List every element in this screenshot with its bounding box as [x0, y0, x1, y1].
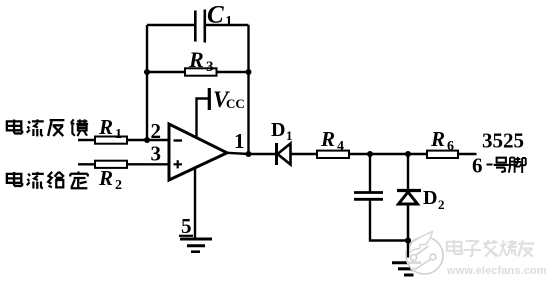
- svg-text:4: 4: [337, 139, 344, 154]
- svg-text:3: 3: [206, 59, 214, 75]
- svg-text:D: D: [423, 187, 437, 209]
- svg-text:3525: 3525: [482, 129, 524, 153]
- svg-text:C: C: [207, 2, 224, 29]
- svg-text:R: R: [430, 127, 445, 151]
- svg-text:5: 5: [181, 214, 192, 238]
- svg-text:1: 1: [234, 129, 245, 153]
- svg-text:2: 2: [151, 119, 162, 143]
- svg-text:6: 6: [447, 139, 454, 154]
- svg-text:1: 1: [115, 127, 122, 142]
- svg-text:R: R: [98, 115, 113, 139]
- svg-text:www.elecfans.com: www.elecfans.com: [446, 265, 547, 277]
- svg-text:1: 1: [225, 14, 233, 30]
- svg-text:6: 6: [472, 154, 483, 178]
- svg-text:CC: CC: [226, 96, 245, 111]
- svg-text:2: 2: [438, 197, 445, 212]
- svg-text:D: D: [271, 119, 285, 141]
- svg-text:R: R: [320, 127, 335, 151]
- svg-text:R: R: [188, 47, 204, 72]
- svg-text:3: 3: [151, 142, 162, 166]
- svg-text:1: 1: [286, 128, 293, 143]
- svg-text:2: 2: [115, 178, 122, 193]
- svg-text:R: R: [98, 166, 113, 190]
